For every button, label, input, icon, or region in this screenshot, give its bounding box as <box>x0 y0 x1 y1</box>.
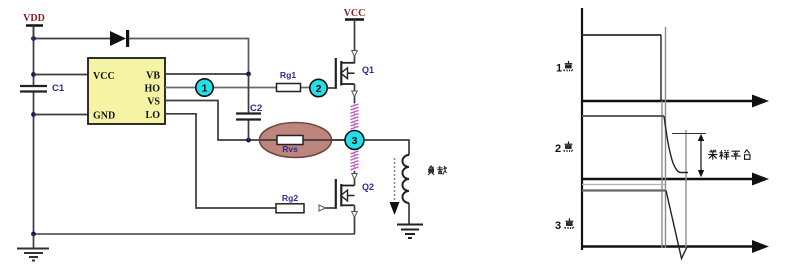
svg-text:3: 3 <box>352 135 358 147</box>
svg-text:Rg2: Rg2 <box>282 193 298 203</box>
svg-text:VB: VB <box>146 71 160 82</box>
capacitor C1 <box>20 83 65 94</box>
left rail wire <box>33 26 35 235</box>
svg-text:LO: LO <box>146 110 161 121</box>
ground left <box>17 249 49 261</box>
node junction at VDD rail <box>31 36 36 41</box>
wire bottom ground rail <box>34 233 356 235</box>
resistor Rvs <box>277 136 303 155</box>
svg-text:1: 1 <box>556 63 562 75</box>
svg-text:Rg1: Rg1 <box>280 70 296 80</box>
parasitic inductance hatch (magenta) <box>351 104 359 170</box>
label 2点 <box>555 141 573 155</box>
wire GND pin <box>34 114 89 116</box>
node C2 bottom junction <box>246 138 251 143</box>
svg-text:VCC: VCC <box>93 71 115 82</box>
power symbol VCC <box>344 8 366 64</box>
svg-text:VCC: VCC <box>344 8 366 19</box>
waveform vertical axis <box>581 8 583 250</box>
svg-text:3: 3 <box>555 220 561 232</box>
wire through Rvs <box>260 139 346 141</box>
svg-text:1: 1 <box>202 82 208 94</box>
node bottom left junction <box>31 232 36 237</box>
resistor Rg2 <box>276 193 304 213</box>
waveform 1 pulse <box>582 35 661 101</box>
op-amp U1 gate driver IC <box>88 58 165 124</box>
svg-text:GND: GND <box>93 111 115 122</box>
time axis 3 <box>582 240 769 253</box>
svg-text:C1: C1 <box>52 83 65 94</box>
wire VS pin <box>165 101 346 141</box>
dimension arrow <box>698 134 704 177</box>
resistor Rg1 <box>277 70 301 92</box>
svg-text:VS: VS <box>147 97 160 108</box>
waveform 3 pulse top <box>582 189 666 191</box>
guide line B <box>665 27 667 248</box>
wire VB pin <box>165 73 249 75</box>
node 2 <box>310 79 327 96</box>
node 3 <box>345 131 364 150</box>
diode D1 <box>110 30 129 47</box>
label 负载 (load) <box>428 166 447 175</box>
load current arrow <box>390 158 400 215</box>
wire HO pin <box>165 87 311 89</box>
time axis 1 <box>582 95 769 108</box>
power symbol VDD <box>23 13 45 39</box>
wire parasitic center line <box>354 103 356 171</box>
wire diode cathode to VB rail corner <box>129 39 249 75</box>
guide line C <box>685 130 687 248</box>
wire to left ground <box>33 234 35 248</box>
wire coil to ground <box>408 203 410 224</box>
transistor Q1 <box>327 51 374 104</box>
node VCC junction <box>31 72 36 77</box>
capacitor C2 <box>236 74 262 140</box>
wire VCC pin <box>34 74 89 76</box>
node GND junction <box>31 112 36 117</box>
svg-text:2: 2 <box>555 143 561 155</box>
svg-text:Rvs: Rvs <box>282 144 298 154</box>
svg-text:Q1: Q1 <box>362 65 374 75</box>
waveform 2 pulse top <box>582 115 664 117</box>
svg-text:C2: C2 <box>250 103 262 114</box>
label 采样平台 (sampling plateau) <box>708 150 750 160</box>
waveform 3 upper thin line <box>582 184 665 186</box>
waveform 3 falling edge <box>666 191 687 259</box>
svg-text:2: 2 <box>316 83 322 95</box>
wire node3 to load <box>364 140 409 155</box>
svg-text:Q2: Q2 <box>362 182 374 192</box>
time axis 2 <box>582 173 769 186</box>
transistor Q2 <box>319 171 374 234</box>
wire VDD node to diode anode <box>34 38 111 40</box>
guide line A <box>661 101 663 248</box>
ellipse highlight around Rvs <box>260 123 332 158</box>
node VB junction <box>246 72 251 77</box>
reference line plateau top <box>672 133 706 135</box>
label 3点 <box>555 218 574 232</box>
waveform 2 falling edge with miller plateau <box>664 116 688 173</box>
label 1点 <box>556 61 573 75</box>
svg-text:HO: HO <box>144 84 160 95</box>
ground under load <box>397 225 423 239</box>
inductor load coil <box>403 155 409 203</box>
node 1 <box>196 79 213 96</box>
wire LO pin <box>165 114 276 208</box>
svg-text:VDD: VDD <box>23 13 45 24</box>
